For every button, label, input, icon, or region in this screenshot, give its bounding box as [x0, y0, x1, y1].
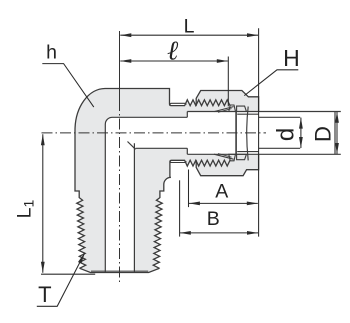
dimension A	[188, 170, 190, 208]
svg-text:h: h	[46, 41, 57, 63]
svg-text:D: D	[310, 126, 335, 142]
horizontal centerline	[42, 132, 267, 134]
tube outer lines	[187, 112, 340, 155]
bottom edge of horizontal leg	[169, 176, 172, 178]
ferrule edge rings across tube	[235, 112, 237, 155]
dimension L	[258, 28, 260, 236]
vertical centerline	[119, 31, 121, 100]
dimension B	[179, 180, 181, 236]
nut N (sectioned)	[196, 91, 258, 176]
nut bore lines	[237, 114, 258, 151]
tube inner (bore d) lines	[259, 117, 301, 148]
svg-text:ℓ: ℓ	[167, 35, 179, 65]
dimension d	[300, 118, 302, 148]
dimension L1	[41, 273, 95, 275]
svg-text:H: H	[283, 45, 300, 71]
body outline	[75, 89, 230, 131]
svg-text:B: B	[207, 208, 220, 230]
svg-text:A: A	[215, 181, 228, 203]
seat cone inner sliver	[218, 109, 232, 158]
svg-text:T: T	[38, 282, 51, 307]
tube end	[334, 112, 336, 155]
elbow body (sectioned)	[75, 89, 245, 273]
dimension l (ell)	[227, 57, 229, 107]
nut outline	[196, 91, 258, 113]
front ferrule top	[237, 106, 247, 111]
bore chamfer edge	[128, 142, 136, 150]
leg end chamfer edge	[91, 270, 148, 272]
svg-text:L: L	[184, 15, 195, 37]
dimension D	[336, 112, 338, 154]
thread relief groove far edges	[170, 103, 186, 162]
socket shoulder	[186, 112, 188, 155]
front ferrule bottom	[237, 154, 247, 159]
bore / tube channel (white)	[105, 112, 335, 273]
back ferrule bottom	[229, 154, 236, 161]
ferrule seat cone edges	[214, 107, 234, 160]
svg-text:d: d	[273, 128, 300, 141]
back ferrule top	[229, 105, 236, 112]
bore outline	[105, 117, 187, 272]
